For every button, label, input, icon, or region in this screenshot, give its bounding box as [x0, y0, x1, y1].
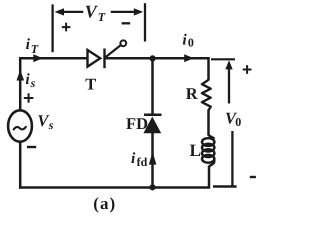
- label i0: [182, 31, 194, 49]
- V0 minus sign: [250, 176, 256, 178]
- label is: [25, 71, 35, 90]
- wire FD branch lower: [151, 133, 154, 188]
- svg-text:s: s: [30, 76, 36, 90]
- VT right arrow: [111, 8, 143, 15]
- svg-text:T: T: [98, 10, 106, 24]
- wire FD branch upper: [151, 58, 154, 114]
- wire load branch top: [207, 57, 210, 81]
- svg-text:L: L: [190, 141, 202, 160]
- svg-text:T: T: [85, 75, 96, 94]
- wire left vertical lower: [19, 142, 22, 189]
- arrow iT on top wire: [33, 54, 43, 62]
- V0 top tick: [211, 58, 235, 60]
- source plus sign: [24, 93, 34, 103]
- V0 arrow upper: [225, 60, 232, 103]
- diode FD: [143, 115, 161, 134]
- svg-text:fd: fd: [137, 155, 148, 169]
- V0 bottom tick: [213, 185, 237, 187]
- thyristor T: [88, 40, 127, 68]
- wire bottom horizontal: [19, 186, 208, 189]
- svg-text:0: 0: [188, 35, 194, 49]
- inductor L: [202, 135, 214, 167]
- svg-text:FD: FD: [126, 114, 148, 133]
- node junction dot bottom: [149, 184, 155, 190]
- label iT: [26, 36, 39, 56]
- VT left arrow: [55, 8, 84, 15]
- label ifd: [131, 150, 148, 169]
- wire left vertical upper: [19, 57, 22, 111]
- wire top right horizontal: [105, 57, 209, 60]
- node junction dot top: [150, 55, 156, 61]
- svg-text:i: i: [182, 31, 187, 48]
- VT bracket left bar: [51, 4, 53, 52]
- V0 line lower: [231, 131, 233, 186]
- svg-text:V: V: [85, 2, 99, 22]
- source minus sign: [27, 146, 36, 148]
- svg-text:R: R: [186, 84, 199, 103]
- V0 plus sign: [243, 65, 252, 74]
- label Vs: [37, 111, 53, 132]
- svg-text:(a): (a): [93, 194, 116, 213]
- label VT: [85, 2, 106, 24]
- svg-text:0: 0: [235, 115, 241, 129]
- svg-text:T: T: [31, 42, 39, 56]
- source Vs: [8, 110, 32, 141]
- arrow ifd: [149, 152, 157, 165]
- wire between R and L: [207, 110, 210, 136]
- resistor R: [202, 80, 211, 111]
- label V0: [225, 109, 241, 129]
- VT plus sign: [62, 23, 71, 32]
- svg-text:s: s: [48, 118, 54, 132]
- wire below L: [208, 166, 211, 189]
- arrow i0 on wire: [184, 54, 194, 62]
- VT bracket right bar: [144, 3, 146, 41]
- wire top left horizontal: [19, 57, 88, 60]
- arrow is: [17, 70, 25, 81]
- VT minus sign: [122, 22, 131, 24]
- svg-text:i: i: [131, 150, 136, 167]
